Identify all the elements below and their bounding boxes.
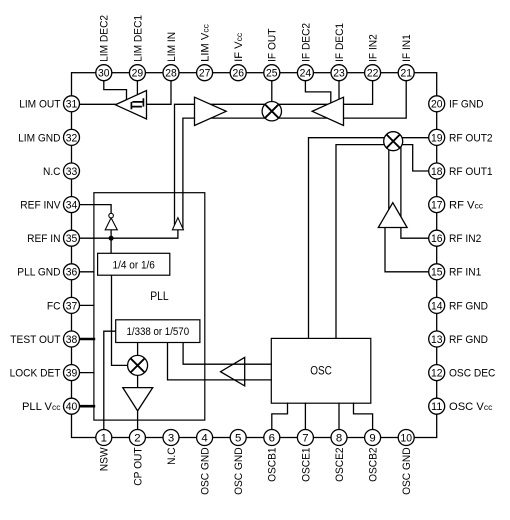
- svg-text:9: 9: [369, 432, 375, 444]
- wire OSC block to pin8 OSCE2: [338, 403, 340, 429]
- svg-text:28: 28: [165, 68, 177, 80]
- svg-text:RF OUT2: RF OUT2: [449, 132, 493, 144]
- wire OSC to mixer X2 upper and pin19 RF OUT2: [309, 138, 429, 339]
- svg-text:17: 17: [431, 200, 443, 212]
- svg-text:18: 18: [431, 166, 443, 178]
- svg-text:LIM GND: LIM GND: [18, 132, 60, 144]
- wire node REFIN down to divider 1/4 box: [110, 238, 112, 253]
- pin 13: [429, 331, 445, 347]
- svg-text:40: 40: [66, 401, 78, 413]
- svg-text:OSCB2: OSCB2: [368, 447, 380, 482]
- svg-text:OSC GND: OSC GND: [401, 447, 413, 495]
- svg-text:6: 6: [269, 432, 275, 444]
- pin 34: [64, 197, 80, 213]
- svg-text:4: 4: [201, 432, 207, 444]
- pin 25: [264, 65, 280, 81]
- svg-text:19: 19: [431, 132, 443, 144]
- wire pin35 REF IN to buffer U5 base: [80, 230, 178, 238]
- svg-text:8: 8: [336, 432, 342, 444]
- svg-text:1/4 or 1/6: 1/4 or 1/6: [113, 260, 155, 272]
- svg-text:PLL GND: PLL GND: [17, 267, 60, 279]
- wire pin29 LIM DEC1 to limiter U1 top edge: [136, 81, 138, 96]
- limiter U1 hysteresis symbol: [131, 98, 143, 109]
- wire pin30 LIM DEC2 to limiter U1 top edge: [104, 81, 127, 102]
- pin 11: [429, 398, 445, 414]
- pin 14: [429, 297, 445, 313]
- wire divider 1/338 output to mixer X3: [137, 343, 139, 358]
- mixer X2 (RF): [384, 132, 403, 151]
- svg-text:31: 31: [66, 99, 78, 111]
- svg-text:IF DEC1: IF DEC1: [334, 23, 346, 62]
- svg-text:20: 20: [431, 99, 443, 111]
- svg-text:CP OUT: CP OUT: [132, 447, 144, 485]
- svg-text:IF GND: IF GND: [449, 99, 484, 111]
- svg-text:NSW: NSW: [99, 447, 111, 471]
- pin 28: [163, 65, 179, 81]
- pin 33: [64, 163, 80, 179]
- svg-text:33: 33: [66, 166, 78, 178]
- wire mixer X3 to charge pump U7: [137, 374, 139, 389]
- IF amplifier U2: [195, 97, 227, 125]
- svg-text:LIM Vcc: LIM Vcc: [200, 23, 212, 61]
- svg-text:OSC GND: OSC GND: [233, 447, 245, 495]
- pin 2: [129, 430, 145, 446]
- pin 27: [197, 65, 213, 81]
- wire pin40 PLL Vcc stub: [80, 405, 94, 408]
- pin 39: [64, 365, 80, 381]
- wire pin34 REF INV to inverter U4: [80, 205, 112, 214]
- wire mixer X1 upper output to IF amp U3: [275, 103, 330, 105]
- IC package outline: [72, 73, 437, 438]
- svg-text:N.C: N.C: [43, 166, 61, 178]
- wire pin28 LIM IN to limiter U1 input: [147, 81, 172, 105]
- svg-text:1: 1: [101, 432, 107, 444]
- wire amp U2 lower input from buffer U5: [183, 118, 195, 229]
- pin 22: [365, 65, 381, 81]
- wire divider 1/338 lower line to OSC block: [168, 343, 272, 380]
- OSC buffer amplifier U8: [221, 357, 245, 386]
- svg-text:RF OUT1: RF OUT1: [449, 166, 493, 178]
- pin 38: [64, 331, 80, 347]
- pin 5: [230, 430, 246, 446]
- wire divider 1/4 output to mixer X3: [112, 275, 131, 365]
- svg-text:PLL: PLL: [150, 289, 169, 303]
- pin 16: [429, 230, 445, 246]
- pin 3: [163, 430, 179, 446]
- wire OSC block to pin9 OSCB2: [354, 403, 373, 429]
- wire pin23 IF DEC1 to IF amp U3 top edge: [338, 81, 340, 101]
- svg-text:LOCK DET: LOCK DET: [10, 368, 61, 380]
- svg-text:15: 15: [431, 267, 443, 279]
- wire amp U2 upper output to mixer X1: [210, 103, 268, 105]
- pin 7: [297, 430, 313, 446]
- pin 9: [365, 430, 381, 446]
- wire pin38 TEST OUT stub: [80, 338, 94, 341]
- svg-text:35: 35: [66, 233, 78, 245]
- wire pin39 LOCK DET stub: [80, 372, 94, 374]
- svg-text:26: 26: [232, 68, 244, 80]
- svg-text:LIM DEC2: LIM DEC2: [99, 15, 111, 62]
- svg-text:3: 3: [168, 432, 174, 444]
- pin 40: [64, 398, 80, 414]
- pin 23: [331, 65, 347, 81]
- pin 10: [398, 430, 414, 446]
- svg-text:27: 27: [199, 68, 211, 80]
- svg-text:5: 5: [235, 432, 241, 444]
- pin 19: [429, 129, 445, 145]
- svg-text:RF GND: RF GND: [449, 300, 488, 312]
- svg-text:IF OUT: IF OUT: [267, 28, 279, 61]
- wire divider 1/338 upper line to OSC block: [183, 343, 271, 365]
- svg-text:N.C: N.C: [166, 447, 178, 465]
- wire amp U2 lower output to mixer X1: [212, 117, 269, 119]
- svg-text:22: 22: [367, 68, 379, 80]
- wire pin15 RF IN1 to RF amp U6 base: [385, 228, 429, 272]
- svg-text:13: 13: [431, 334, 443, 346]
- wire pin22 IF IN2 to IF amp U3 input: [344, 81, 373, 105]
- wire inverter U4 base to node REFIN: [110, 230, 112, 238]
- svg-text:OSCE2: OSCE2: [334, 447, 346, 482]
- inverter U4: [105, 218, 117, 230]
- wire pin16 RF IN2 to RF amp U6 base: [401, 228, 429, 239]
- svg-text:36: 36: [66, 267, 78, 279]
- RF amplifier U6: [378, 203, 407, 228]
- wire OSC block to pin7 OSCE1: [304, 403, 306, 429]
- svg-text:RF GND: RF GND: [449, 334, 488, 346]
- mixer X3 (phase detector): [128, 355, 148, 375]
- svg-text:39: 39: [66, 368, 78, 380]
- wire mixer X2 left output down to RF amp U6: [388, 145, 390, 211]
- pin 12: [429, 365, 445, 381]
- svg-text:OSC Vcc: OSC Vcc: [449, 401, 493, 413]
- pin 30: [96, 65, 112, 81]
- pin 29: [129, 65, 145, 81]
- svg-text:38: 38: [66, 334, 78, 346]
- svg-text:IF Vcc: IF Vcc: [233, 32, 245, 62]
- svg-text:21: 21: [400, 68, 412, 80]
- pin 4: [197, 430, 213, 446]
- svg-text:24: 24: [300, 68, 312, 80]
- pin 8: [331, 430, 347, 446]
- svg-text:OSC: OSC: [310, 364, 332, 378]
- svg-text:LIM IN: LIM IN: [166, 32, 178, 62]
- buffer U5: [172, 218, 183, 230]
- pin 26: [230, 65, 246, 81]
- divider box 1/4 or 1/6: [98, 253, 170, 275]
- svg-text:LIM OUT: LIM OUT: [19, 99, 60, 111]
- mixer X1 (IF): [262, 102, 281, 121]
- svg-text:30: 30: [98, 68, 110, 80]
- svg-text:32: 32: [66, 132, 78, 144]
- wire pin36 PLL GND stub: [80, 271, 94, 273]
- pin 37: [64, 297, 80, 313]
- svg-text:REF IN: REF IN: [27, 233, 60, 245]
- limiter amplifier U1: [115, 91, 146, 120]
- svg-text:34: 34: [66, 200, 78, 212]
- pin 24: [297, 65, 313, 81]
- svg-text:TEST OUT: TEST OUT: [10, 334, 60, 346]
- wire pin24 IF DEC2 to IF amp U3 top edge: [305, 81, 330, 105]
- wire pin37 FC stub: [80, 304, 94, 306]
- wire charge pump U7 to pin2 CP OUT: [137, 411, 139, 430]
- divider box 1/338 or 1/570: [116, 320, 200, 343]
- svg-text:12: 12: [431, 368, 443, 380]
- svg-text:RF IN2: RF IN2: [449, 233, 481, 245]
- inverter U4 bubble: [109, 213, 114, 218]
- junction node REFIN: [109, 236, 114, 241]
- svg-text:REF INV: REF INV: [20, 200, 61, 212]
- svg-text:OSC GND: OSC GND: [200, 447, 212, 495]
- wire OSC block to pin6 OSCB1: [272, 403, 288, 429]
- svg-text:FC: FC: [47, 300, 61, 312]
- svg-text:23: 23: [333, 68, 345, 80]
- wire pin1 NSW to divider 1/338 box: [104, 331, 116, 429]
- OSC block box: [271, 338, 371, 403]
- svg-text:IF IN2: IF IN2: [368, 34, 380, 62]
- svg-text:37: 37: [66, 300, 78, 312]
- pin 35: [64, 230, 80, 246]
- svg-text:11: 11: [431, 401, 443, 413]
- svg-text:OSCB1: OSCB1: [267, 447, 279, 482]
- wire mixer X2 right output down to RF amp U6: [400, 145, 402, 218]
- svg-text:16: 16: [431, 233, 443, 245]
- wire amp U2 upper input from buffer U5: [175, 104, 195, 226]
- wire mixer X1 lower output to IF amp U3: [275, 117, 328, 119]
- wire pin31 LIM OUT to limiter U1 output: [80, 103, 117, 105]
- svg-text:10: 10: [400, 432, 412, 444]
- charge pump triangle U7: [123, 388, 153, 411]
- PLL block box: [94, 193, 205, 420]
- svg-text:2: 2: [134, 432, 140, 444]
- wire OSC to mixer X2 lower and pin18 RF OUT1: [336, 145, 429, 339]
- svg-text:IF DEC2: IF DEC2: [300, 23, 312, 62]
- pin 1: [96, 430, 112, 446]
- svg-text:LIM DEC1: LIM DEC1: [132, 15, 144, 62]
- wire pin21 IF IN1 to IF amp U3 input: [344, 81, 407, 118]
- pin 20: [429, 96, 445, 112]
- svg-text:7: 7: [302, 432, 308, 444]
- pin 32: [64, 129, 80, 145]
- svg-text:1/338 or 1/570: 1/338 or 1/570: [127, 326, 190, 338]
- svg-text:RF IN1: RF IN1: [449, 267, 481, 279]
- pin 21: [398, 65, 414, 81]
- pin 31: [64, 96, 80, 112]
- pin 6: [264, 430, 280, 446]
- pin 18: [429, 163, 445, 179]
- svg-text:PLL Vcc: PLL Vcc: [22, 401, 61, 413]
- IF amplifier U3: [312, 97, 343, 125]
- pin 36: [64, 264, 80, 280]
- svg-text:OSC DEC: OSC DEC: [449, 368, 495, 380]
- svg-text:14: 14: [431, 300, 443, 312]
- svg-text:25: 25: [266, 68, 278, 80]
- pin 17: [429, 197, 445, 213]
- svg-text:OSCE1: OSCE1: [300, 447, 312, 482]
- svg-text:IF IN1: IF IN1: [401, 34, 413, 62]
- svg-text:29: 29: [132, 68, 144, 80]
- svg-text:RF Vcc: RF Vcc: [449, 200, 484, 212]
- wire pin25 IF OUT to mixer X1: [271, 81, 273, 104]
- pin 15: [429, 264, 445, 280]
